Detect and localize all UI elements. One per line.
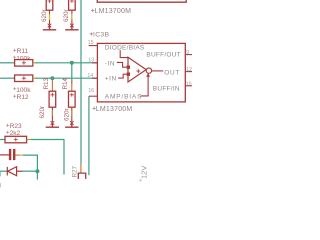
wire stub down (dead end)	[36, 171, 38, 179]
amp/bias internal link with arrow	[141, 73, 150, 96]
input squares	[127, 66, 130, 69]
svg-text:9: 9	[186, 50, 189, 56]
svg-text:OUT: OUT	[164, 69, 180, 76]
svg-text:AMP/BIAS: AMP/BIAS	[105, 93, 143, 100]
pin 10 BUFF/IN stub	[185, 85, 192, 87]
svg-text:3: 3	[0, 184, 2, 190]
label R12	[13, 94, 29, 101]
net label fragment at left edge	[0, 167, 2, 179]
pin 13 -IN stub (wire arrives)	[92, 62, 97, 64]
pin 16 AMP/BIAS stub	[89, 95, 98, 97]
svg-text:-IN: -IN	[105, 60, 115, 67]
diode D (pointing left)	[7, 167, 22, 176]
resistor R27 (vertical, partially drawn)	[78, 164, 85, 180]
junction node diode net	[35, 169, 39, 173]
wire R14 column down	[71, 63, 73, 84]
svg-text:12V: 12V	[139, 166, 148, 179]
svg-text:620r: 620r	[41, 9, 48, 22]
label LM13700M (IC3B value)	[92, 106, 132, 113]
svg-text:R14: R14	[62, 77, 69, 89]
resistor R11 100k (horizontal)	[0, 60, 37, 67]
svg-text:620r: 620r	[64, 108, 71, 121]
resistor R14 620r (vertical)	[69, 91, 76, 122]
+IN internal link	[118, 74, 126, 78]
svg-text:R12: R12	[17, 94, 29, 101]
label 100k (R12 value)	[13, 87, 31, 94]
label IC3B	[90, 32, 110, 39]
svg-text:12: 12	[186, 67, 192, 73]
svg-text:15: 15	[88, 40, 94, 46]
plus mark inside triangle	[136, 69, 140, 73]
wire W1 vertical net to R27	[80, 0, 82, 164]
op-amp IC3B box	[97, 43, 185, 102]
label R23	[6, 123, 22, 130]
op-amp U IC3A box bottom edge	[97, 0, 186, 2]
wire diode-left	[0, 170, 7, 172]
resistor R26 620r (top-left vertical)	[46, 0, 53, 25]
ground for R26	[43, 24, 56, 30]
pin 9 BUFF/OUT stub	[185, 54, 192, 56]
supply label 12V (rotated)	[139, 166, 148, 182]
svg-text:3: 3	[0, 173, 2, 179]
svg-text:BUFF/IN: BUFF/IN	[153, 86, 180, 93]
svg-text:BUFF/OUT: BUFF/OUT	[146, 51, 181, 58]
resistor R28 620r (second top vertical)	[69, 0, 76, 25]
svg-text:14: 14	[87, 73, 93, 79]
svg-text:R23: R23	[10, 123, 22, 130]
svg-text:620r: 620r	[63, 9, 70, 22]
resistor R23 2k2 (horizontal)	[0, 136, 32, 143]
ground for R28	[65, 24, 78, 30]
wire R11 to pin 13	[36, 62, 98, 64]
resistor R12 100k (horizontal)	[0, 75, 37, 82]
-IN internal link	[117, 62, 127, 67]
wire cap to vertical	[23, 155, 37, 171]
wire W3 from pin 16 down	[88, 96, 90, 175]
svg-text:R11: R11	[17, 48, 29, 55]
ground for R13	[46, 121, 59, 127]
svg-text:13: 13	[88, 58, 94, 64]
label 2k2	[6, 130, 20, 137]
capacitor C (polarized, horizontal)	[0, 149, 23, 160]
pin of R14 (orange overlap)	[71, 80, 73, 91]
svg-text:DIODE/BIAS: DIODE/BIAS	[105, 44, 145, 51]
svg-text:+IN: +IN	[105, 76, 117, 83]
svg-text:10: 10	[186, 81, 192, 87]
pin 15 DIODE/BIAS stub	[89, 45, 97, 47]
resistor R13 620r (vertical)	[49, 91, 56, 122]
svg-text:R27: R27	[72, 165, 79, 177]
junction node at R14 column	[70, 61, 74, 65]
wire diode to vertical junction	[22, 170, 37, 172]
svg-text:16: 16	[88, 88, 94, 94]
label R11	[13, 48, 28, 55]
svg-text:IC3B: IC3B	[93, 32, 109, 39]
label 100k (R11 value)	[13, 55, 31, 62]
pin 12 OUT stub	[185, 71, 192, 73]
diode/bias internal link	[120, 50, 128, 57]
svg-text:LM13700M: LM13700M	[95, 8, 132, 15]
svg-text:620r: 620r	[39, 106, 46, 119]
junction node at R13 column	[50, 76, 54, 80]
svg-text:R13: R13	[43, 77, 50, 89]
svg-text:100k: 100k	[16, 87, 31, 94]
output circle	[146, 68, 151, 73]
op-amp triangle	[128, 57, 146, 82]
pin 14 +IN stub	[92, 77, 97, 79]
ground for R14	[65, 121, 78, 127]
label IC3A value LM13700M	[91, 8, 131, 15]
pin of R13 (orange overlap)	[51, 78, 53, 91]
wire R23 right then down (W0)	[31, 140, 64, 175]
wire R12 to pin 14	[36, 77, 98, 79]
output line to OUT pin	[152, 70, 164, 72]
svg-text:LM13700M: LM13700M	[96, 106, 133, 113]
